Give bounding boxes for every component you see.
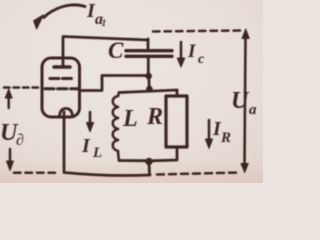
bottom junction dot xyxy=(145,158,152,165)
svg-text:I: I xyxy=(187,41,196,62)
wire anode to capacitor (top wire) xyxy=(63,37,148,67)
svg-text:a: a xyxy=(249,102,257,118)
svg-text:R: R xyxy=(220,130,231,146)
dashed bottom right xyxy=(157,173,240,175)
tank bottom wire xyxy=(119,159,152,162)
resistor top lead xyxy=(176,90,179,96)
dashed measurement line top xyxy=(153,31,243,32)
wire node G to node A xyxy=(147,76,150,89)
svg-text:C: C xyxy=(108,38,124,63)
dashed grid level left xyxy=(4,86,41,89)
svg-text:1: 1 xyxy=(102,19,107,29)
node G junction dot xyxy=(145,73,152,80)
capacitor lead to node G xyxy=(147,58,150,76)
tube grid dashes row 2 xyxy=(45,87,79,90)
current arrow IL xyxy=(89,112,92,124)
node A junction dot xyxy=(146,86,153,93)
wire cathode to bottom rail xyxy=(64,112,150,176)
inductor L xyxy=(113,93,119,161)
dashed bottom left xyxy=(14,172,60,175)
tube cathode xyxy=(60,109,73,117)
svg-text:U: U xyxy=(231,88,250,114)
tube grid dashes row 1 xyxy=(50,77,72,80)
svg-text:∂: ∂ xyxy=(16,132,24,149)
arrowhead Ia1 xyxy=(34,15,44,29)
svg-text:c: c xyxy=(198,52,205,67)
resistor R body xyxy=(166,96,187,147)
resistor bottom lead xyxy=(152,147,177,161)
wire grid to node G xyxy=(79,76,146,91)
svg-text:R: R xyxy=(146,104,163,130)
svg-text:L: L xyxy=(92,145,102,161)
tube U1 envelope xyxy=(42,58,80,117)
tank top wire xyxy=(119,90,177,93)
svg-text:L: L xyxy=(122,106,138,132)
current arrow IR xyxy=(208,120,211,140)
capacitor lead from top wire xyxy=(147,39,150,49)
voltage arrow Ua (right, double headed) xyxy=(245,36,246,166)
capacitor C bottom plate xyxy=(126,55,172,58)
voltage arrow Ug up xyxy=(7,96,10,108)
capacitor C top plate xyxy=(126,49,172,52)
anode current curved arrow Ia1 xyxy=(44,5,85,18)
svg-text:I: I xyxy=(81,135,91,157)
stub junction to bottom rail xyxy=(148,162,151,176)
current arrow Ic xyxy=(180,42,183,60)
tube anode plate xyxy=(54,65,70,68)
voltage arrow Ug down xyxy=(9,149,12,163)
